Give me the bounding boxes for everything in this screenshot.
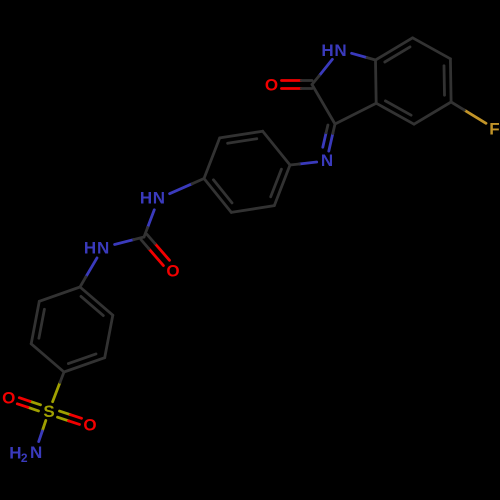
phenyl inner double Ct=r2: [81, 296, 103, 315]
wire phenyl v3-Cl: [204, 179, 231, 213]
wire S-NH2: [42, 421, 46, 432]
svg-text:N: N: [334, 41, 346, 60]
benzo inner double C7a=C7: [385, 47, 410, 62]
svg-text:N: N: [97, 239, 109, 258]
phenyl inner double v5=v6: [228, 139, 257, 144]
benzo inner double C6=C5: [443, 66, 446, 95]
phenyl inner double br=Cb: [68, 354, 96, 364]
imine C3=N double bond: [329, 134, 333, 152]
wire NH-phenyl (lower): [86, 258, 97, 277]
sulfonyl S=O left double bond: [30, 401, 41, 405]
wire phenyl Cl-v5: [204, 138, 220, 179]
wire phenyl br-Cb: [64, 358, 105, 372]
svg-text:H: H: [321, 41, 333, 60]
svg-text:N: N: [30, 443, 42, 462]
wire C7-C6 (benzo): [413, 38, 451, 59]
wire phenyl l2-tl: [31, 301, 39, 344]
svg-text:H: H: [9, 444, 21, 463]
svg-text:O: O: [83, 416, 96, 435]
svg-text:H: H: [140, 189, 152, 208]
wire C7a-C7 (benzo): [376, 38, 413, 60]
wire phenyl v6-Cr: [263, 131, 290, 165]
wire C3a-C7a (ring fusion): [374, 60, 378, 103]
wire phenyl Cb-l2: [31, 344, 64, 372]
urea C=O double bond: [149, 249, 164, 266]
sulfonyl S=O right double bond: [58, 417, 69, 421]
svg-text:2: 2: [21, 451, 28, 465]
phenyl inner double Cr=v2: [271, 169, 282, 197]
fluorine bond C5-F: [464, 110, 486, 123]
benzo inner double C4=C3a: [385, 101, 411, 115]
wire phenyl-S: [53, 382, 60, 401]
wire NH-C (urea): [148, 210, 155, 228]
wire C5-C4 (benzo): [414, 102, 451, 124]
wire C6-C5 (benzo): [449, 59, 453, 102]
svg-text:N: N: [321, 151, 333, 170]
wire N(imine)-phenyl: [299, 162, 316, 164]
svg-text:S: S: [43, 402, 54, 421]
wire C3-C3a (oxindole): [335, 103, 376, 124]
wire phenyl v5-v6: [220, 131, 263, 138]
wire phenyl-NH (urea): [170, 184, 192, 194]
wire C2-C3 (oxindole): [312, 85, 335, 125]
phenyl inner double l2=tl: [39, 309, 45, 338]
svg-text:O: O: [2, 389, 15, 408]
wire phenyl Ct-r2: [80, 287, 113, 315]
wire C4-C3a (benzo): [376, 103, 414, 124]
wire phenyl r2-br: [105, 315, 113, 358]
svg-text:O: O: [265, 76, 278, 95]
wire N1-C2 (oxindole): [319, 59, 332, 75]
svg-text:N: N: [153, 189, 165, 208]
wire C-NH (urea): [115, 240, 134, 245]
wire phenyl Cr-v2: [274, 165, 290, 206]
phenyl inner double v3=Cl: [213, 180, 232, 203]
svg-text:F: F: [489, 120, 499, 139]
wire C7a-N1 (oxindole): [352, 53, 368, 57]
wire phenyl tl-Ct: [39, 287, 80, 301]
svg-text:O: O: [166, 262, 179, 281]
wire phenyl v2-v3: [231, 206, 274, 213]
svg-text:H: H: [84, 239, 96, 258]
carbonyl C2=O double bond: [282, 79, 302, 82]
